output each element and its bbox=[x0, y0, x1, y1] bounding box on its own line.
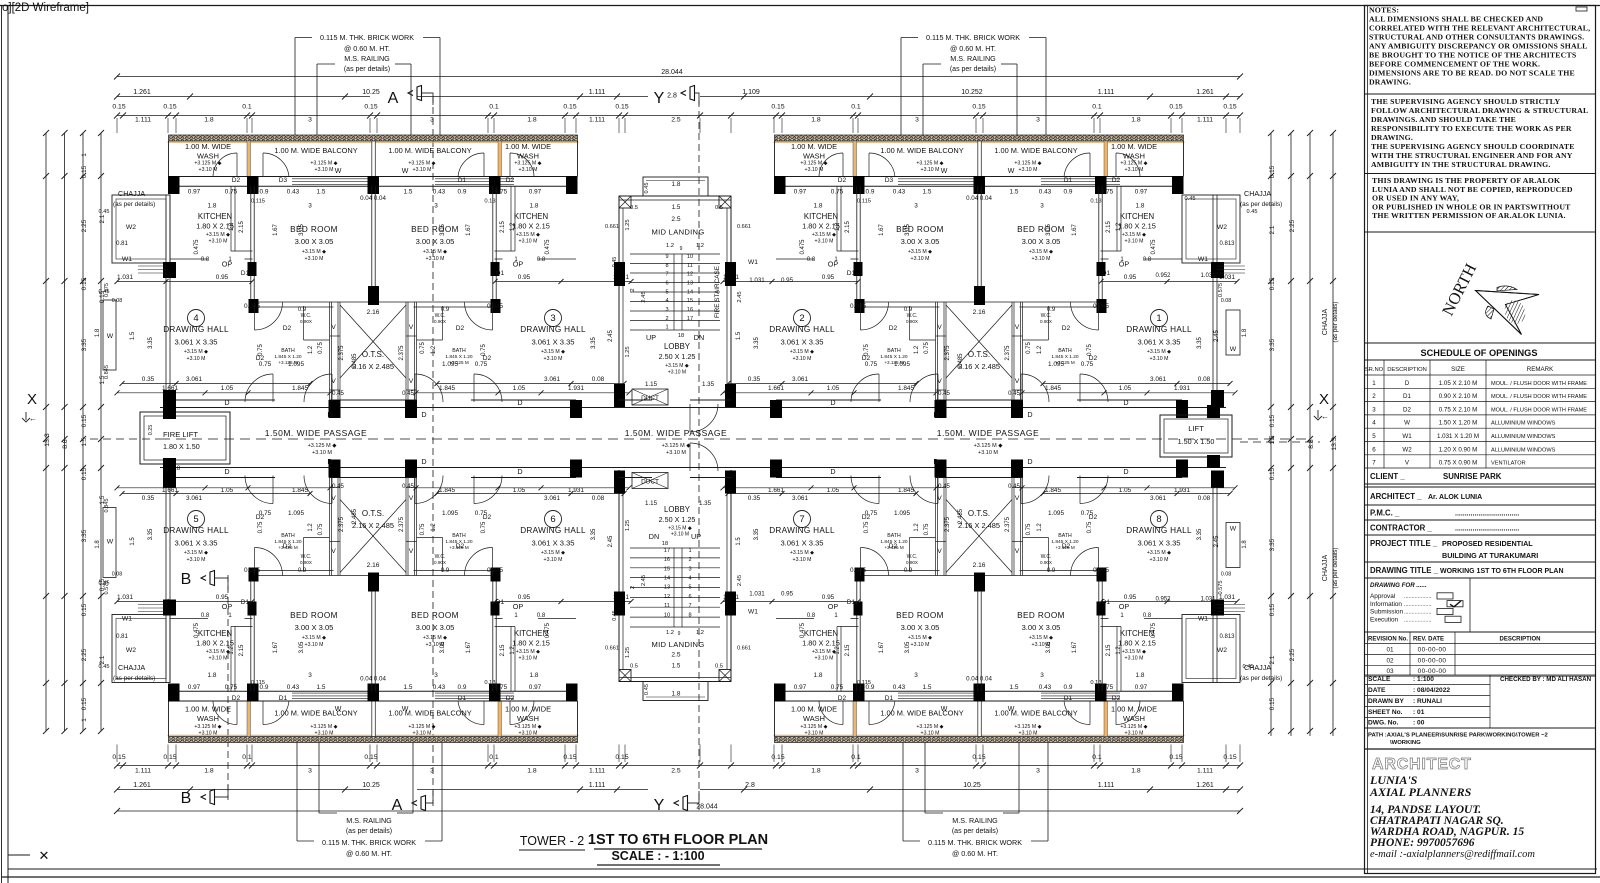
svg-text:1.111: 1.111 bbox=[1197, 117, 1213, 124]
svg-text:V: V bbox=[1015, 324, 1020, 331]
svg-text:Ar. ALOK LUNIA: Ar. ALOK LUNIA bbox=[1428, 494, 1482, 501]
svg-text:1.111: 1.111 bbox=[589, 768, 605, 775]
svg-text:0.43: 0.43 bbox=[287, 189, 300, 196]
svg-text:2.45: 2.45 bbox=[608, 535, 614, 547]
svg-text:D2: D2 bbox=[456, 325, 465, 332]
svg-text:1.00 M. WIDE: 1.00 M. WIDE bbox=[1111, 705, 1157, 714]
svg-text:W2: W2 bbox=[126, 647, 136, 654]
svg-text:0.97: 0.97 bbox=[794, 684, 807, 691]
stair core columns bottom bbox=[614, 592, 625, 616]
svg-text:1.35: 1.35 bbox=[702, 381, 715, 388]
svg-text:(as per details): (as per details) bbox=[346, 828, 392, 835]
passage wall top wing bbox=[776, 399, 881, 401]
unit number 6 bbox=[545, 511, 562, 528]
svg-text:1.2: 1.2 bbox=[229, 646, 235, 655]
svg-text:3.35: 3.35 bbox=[1197, 337, 1203, 349]
svg-text:1.00 M. WIDE: 1.00 M. WIDE bbox=[505, 705, 551, 714]
svg-text:1.67: 1.67 bbox=[1072, 641, 1078, 653]
svg-text:←: ← bbox=[1321, 412, 1329, 421]
svg-text:✕: ✕ bbox=[39, 848, 50, 863]
svg-text:V: V bbox=[937, 548, 942, 555]
svg-text:+3.10 M: +3.10 M bbox=[315, 731, 334, 737]
svg-text:3.05: 3.05 bbox=[299, 224, 305, 236]
svg-text:1.15: 1.15 bbox=[645, 500, 658, 507]
left W window box top bbox=[103, 300, 116, 370]
svg-text:WASH: WASH bbox=[1123, 714, 1145, 723]
svg-text:1.50M. WIDE PASSAGE: 1.50M. WIDE PASSAGE bbox=[265, 428, 367, 438]
bedroom bottom wall bottom bbox=[859, 575, 1101, 577]
svg-text:ARCHITECT: ARCHITECT bbox=[1372, 756, 1472, 773]
svg-text:1.031 X 1.20 M: 1.031 X 1.20 M bbox=[1437, 433, 1479, 440]
svg-text:2: 2 bbox=[665, 316, 668, 322]
svg-text:V: V bbox=[409, 548, 414, 555]
svg-text:0.75: 0.75 bbox=[831, 684, 844, 691]
svg-text:D2: D2 bbox=[1062, 543, 1071, 550]
svg-text:0.9: 0.9 bbox=[904, 568, 913, 574]
svg-text:+3.15 M ◆: +3.15 M ◆ bbox=[184, 349, 208, 355]
svg-text:1.80 X 2.15: 1.80 X 2.15 bbox=[1118, 222, 1156, 231]
svg-text:+3.10 M: +3.10 M bbox=[805, 167, 824, 173]
svg-text:D: D bbox=[327, 457, 332, 466]
svg-text:0.75: 0.75 bbox=[259, 361, 272, 368]
bedroom door arcs D1 bottom bbox=[861, 548, 889, 576]
svg-text:+3.15 M ◆: +3.15 M ◆ bbox=[812, 649, 836, 655]
svg-text:0.35: 0.35 bbox=[748, 495, 761, 502]
svg-text:0.8: 0.8 bbox=[537, 613, 546, 619]
svg-text:1.931: 1.931 bbox=[568, 385, 584, 392]
kitchen bottom wall top bbox=[170, 258, 208, 260]
svg-text:1.2: 1.2 bbox=[510, 646, 516, 655]
svg-text:0.08: 0.08 bbox=[112, 298, 123, 304]
svg-text:0.35: 0.35 bbox=[142, 376, 155, 383]
svg-text:+3.15 M ◆: +3.15 M ◆ bbox=[1147, 550, 1171, 556]
svg-text:1.50 X 1.20 M: 1.50 X 1.20 M bbox=[1439, 420, 1478, 427]
svg-text:2.45: 2.45 bbox=[641, 575, 647, 586]
svg-text:0.9: 0.9 bbox=[1064, 189, 1073, 196]
svg-text:2.45: 2.45 bbox=[641, 291, 647, 302]
svg-text:A: A bbox=[392, 797, 403, 814]
svg-text:REMARK: REMARK bbox=[1527, 366, 1554, 373]
svg-text:V: V bbox=[409, 378, 414, 385]
client row bbox=[1365, 483, 1596, 485]
svg-text:0.9: 0.9 bbox=[458, 684, 467, 691]
svg-text:1.80 X 2.15: 1.80 X 2.15 bbox=[512, 222, 550, 231]
svg-text:BATH: BATH bbox=[887, 348, 901, 354]
svg-text:0.08: 0.08 bbox=[112, 572, 123, 578]
svg-text:0.97: 0.97 bbox=[188, 684, 201, 691]
svg-text:D: D bbox=[517, 467, 522, 476]
stair treads top bbox=[630, 253, 720, 255]
svg-text:0.08: 0.08 bbox=[1221, 298, 1232, 304]
columns exterior wall bottom bbox=[168, 684, 180, 702]
passage wall lower bbox=[160, 467, 1226, 469]
svg-text:WASH: WASH bbox=[803, 714, 825, 723]
svg-text:0.9: 0.9 bbox=[1047, 307, 1056, 313]
kitchen bottom wall bottom bbox=[170, 618, 208, 620]
svg-text:3.35: 3.35 bbox=[591, 528, 597, 540]
svg-text:18: 18 bbox=[678, 333, 684, 339]
svg-text:0.97: 0.97 bbox=[1135, 189, 1148, 196]
architect row bbox=[1365, 504, 1596, 506]
svg-text:0.115 M. THK. BRICK WORK: 0.115 M. THK. BRICK WORK bbox=[928, 838, 1022, 847]
svg-text:W1: W1 bbox=[748, 259, 758, 266]
svg-text:REVISION No.: REVISION No. bbox=[1368, 637, 1408, 643]
svg-text:0.45: 0.45 bbox=[1008, 484, 1020, 490]
svg-text:0.9: 0.9 bbox=[298, 568, 307, 574]
svg-text:0.45: 0.45 bbox=[332, 391, 344, 397]
svg-text:Y: Y bbox=[654, 90, 665, 107]
svg-text:O.T.S.: O.T.S. bbox=[968, 509, 990, 518]
stair core outer walls bottom bbox=[618, 470, 620, 682]
stair core bottom wall top bbox=[619, 399, 652, 401]
left chajja box bottom bbox=[112, 615, 170, 683]
svg-text:1.2: 1.2 bbox=[835, 646, 841, 655]
svg-text:10: 10 bbox=[664, 612, 670, 618]
svg-text:DRAWINGS. AND SHOULD TAKE THE: DRAWINGS. AND SHOULD TAKE THE bbox=[1371, 115, 1516, 124]
stair center rails top bbox=[673, 254, 675, 330]
svg-text:5: 5 bbox=[193, 514, 198, 525]
svg-text:0.75: 0.75 bbox=[475, 510, 488, 517]
svg-text:V: V bbox=[331, 495, 336, 502]
svg-text:2.375: 2.375 bbox=[399, 345, 405, 361]
svg-text:STRUCTURAL AND OTHER CONSULTAN: STRUCTURAL AND OTHER CONSULTANTS DRAWING… bbox=[1369, 33, 1584, 42]
svg-text:1.80 X 2.15: 1.80 X 2.15 bbox=[1118, 639, 1156, 648]
right wall columns bottom bbox=[1211, 600, 1224, 616]
svg-text:+3.10 M: +3.10 M bbox=[815, 656, 834, 662]
svg-text:2.50 X 1.25: 2.50 X 1.25 bbox=[659, 352, 696, 361]
svg-text:0.95: 0.95 bbox=[781, 591, 794, 598]
svg-text:PROJECT TITLE _: PROJECT TITLE _ bbox=[1370, 539, 1438, 548]
svg-text:WASH: WASH bbox=[803, 152, 825, 161]
svg-text:0.945: 0.945 bbox=[487, 567, 503, 574]
unit number 8 bbox=[1151, 511, 1168, 528]
section line B dashed bbox=[227, 575, 229, 800]
svg-text:0.15: 0.15 bbox=[563, 754, 576, 761]
svg-text:2.15: 2.15 bbox=[845, 644, 851, 656]
svg-text:3: 3 bbox=[434, 672, 438, 679]
svg-text:D: D bbox=[1027, 410, 1032, 419]
columns exterior wall top bbox=[774, 176, 786, 194]
svg-text:0.475: 0.475 bbox=[194, 622, 200, 638]
svg-text:0.115: 0.115 bbox=[857, 199, 871, 205]
balcony outline bottom bbox=[774, 701, 776, 737]
svg-text:3.00 X 3.05: 3.00 X 3.05 bbox=[1022, 237, 1061, 246]
svg-text:0.08: 0.08 bbox=[1198, 376, 1211, 383]
svg-text:0.1: 0.1 bbox=[851, 754, 861, 761]
svg-text:BED ROOM: BED ROOM bbox=[896, 611, 944, 620]
svg-text:1.80 X 2.15: 1.80 X 2.15 bbox=[802, 639, 840, 648]
svg-text:CHAJJA: CHAJJA bbox=[118, 663, 145, 672]
svg-text:0.95: 0.95 bbox=[1124, 594, 1137, 601]
svg-text:3.061 X 3.35: 3.061 X 3.35 bbox=[1137, 539, 1180, 548]
svg-text:0.75: 0.75 bbox=[258, 344, 264, 356]
svg-text:0.43: 0.43 bbox=[1039, 684, 1052, 691]
svg-text:DESCRIPTION: DESCRIPTION bbox=[1499, 637, 1540, 643]
svg-text:1.031: 1.031 bbox=[117, 594, 133, 601]
svg-text:3.061: 3.061 bbox=[544, 376, 560, 383]
stair core columns top bbox=[614, 262, 625, 286]
hall door arcs at passage bottom bbox=[304, 476, 332, 504]
hall door arcs at passage top bbox=[304, 374, 332, 402]
svg-text:W: W bbox=[402, 168, 409, 175]
bottom dimension row 1 bbox=[117, 765, 1240, 767]
svg-text:DRAWN BY: DRAWN BY bbox=[1368, 698, 1405, 705]
duct box bottom bbox=[632, 473, 668, 489]
svg-text:1.50M. WIDE PASSAGE: 1.50M. WIDE PASSAGE bbox=[937, 428, 1039, 438]
svg-text:3.35: 3.35 bbox=[1197, 528, 1203, 540]
svg-text:0.95: 0.95 bbox=[822, 274, 835, 281]
svg-text:00-00-00: 00-00-00 bbox=[1418, 657, 1447, 664]
svg-text:X: X bbox=[1319, 391, 1329, 408]
svg-text:0.9: 0.9 bbox=[260, 189, 269, 196]
stair landing protrusion top bbox=[643, 177, 708, 196]
svg-text:1.5: 1.5 bbox=[1010, 684, 1019, 691]
svg-text:3: 3 bbox=[914, 203, 918, 210]
svg-text:0.945: 0.945 bbox=[244, 567, 260, 574]
svg-text:0.90X: 0.90X bbox=[1040, 319, 1052, 324]
svg-text:1.2: 1.2 bbox=[666, 243, 674, 249]
svg-text:0.9: 0.9 bbox=[458, 189, 467, 196]
window sills exterior wall bottom bbox=[898, 698, 976, 700]
svg-text:W: W bbox=[1404, 420, 1410, 427]
unit number 1 bbox=[1151, 310, 1168, 327]
OTS cross bottom bbox=[340, 500, 406, 573]
svg-text:3.35: 3.35 bbox=[754, 528, 760, 540]
svg-text:0.75: 0.75 bbox=[495, 684, 508, 691]
svg-text:W: W bbox=[1230, 346, 1237, 353]
right W window box top bbox=[1226, 310, 1240, 355]
svg-text:+3.10 M: +3.10 M bbox=[1125, 167, 1144, 173]
svg-text:0.5: 0.5 bbox=[630, 664, 638, 670]
svg-text:@ 0.60 M. HT.: @ 0.60 M. HT. bbox=[344, 44, 390, 53]
columns passage wall bottom bbox=[164, 460, 176, 478]
svg-text:0.75: 0.75 bbox=[475, 361, 488, 368]
svg-text:1.67: 1.67 bbox=[879, 224, 885, 236]
svg-text:2.25: 2.25 bbox=[81, 648, 88, 661]
svg-text:@ 0.60 M. HT.: @ 0.60 M. HT. bbox=[346, 849, 392, 858]
right chajja box bottom bbox=[1182, 615, 1240, 683]
svg-text:1: 1 bbox=[1156, 313, 1161, 324]
svg-text:0.75 X 2.10 M: 0.75 X 2.10 M bbox=[1439, 406, 1478, 413]
svg-text:1.5: 1.5 bbox=[404, 189, 413, 196]
svg-text:..............................: ................................. bbox=[1455, 525, 1519, 532]
svg-text:MID LANDING: MID LANDING bbox=[651, 228, 704, 237]
svg-text:1.67: 1.67 bbox=[879, 641, 885, 653]
sheet bottom border bbox=[8, 868, 1597, 870]
svg-text:0.952: 0.952 bbox=[1155, 273, 1171, 279]
columns exterior wall bottom bbox=[774, 684, 786, 702]
svg-text:4: 4 bbox=[1372, 420, 1376, 427]
svg-text:0.15: 0.15 bbox=[81, 414, 88, 427]
svg-text:0.845: 0.845 bbox=[104, 499, 110, 513]
brick work note bottom bbox=[903, 840, 920, 842]
svg-text:V: V bbox=[1015, 495, 1020, 502]
svg-text:1.031: 1.031 bbox=[117, 274, 133, 281]
svg-text:0.15: 0.15 bbox=[615, 104, 628, 111]
svg-text:1: 1 bbox=[1372, 380, 1376, 387]
svg-text:0.08: 0.08 bbox=[592, 376, 605, 383]
svg-text:+3.10 M: +3.10 M bbox=[544, 356, 563, 362]
svg-text:0.45: 0.45 bbox=[1008, 391, 1020, 397]
svg-text:0.115 M. THK. BRICK WORK: 0.115 M. THK. BRICK WORK bbox=[926, 33, 1020, 42]
svg-text:2.375: 2.375 bbox=[399, 516, 405, 532]
svg-text:1.8: 1.8 bbox=[1242, 540, 1248, 549]
svg-text:3.061 X 3.35: 3.061 X 3.35 bbox=[531, 338, 574, 347]
svg-text:3.05: 3.05 bbox=[440, 641, 446, 653]
svg-text:..................: .................. bbox=[1404, 602, 1432, 608]
svg-text:D2: D2 bbox=[232, 177, 241, 184]
svg-text:0.75: 0.75 bbox=[865, 361, 878, 368]
railing note leader bbox=[317, 63, 335, 65]
svg-text:+3.15 M ◆: +3.15 M ◆ bbox=[1122, 649, 1146, 655]
balcony partition walls bottom bbox=[247, 701, 251, 737]
passage wall upper bbox=[160, 407, 1226, 409]
svg-text:CONTRACTOR _: CONTRACTOR _ bbox=[1370, 523, 1432, 532]
svg-text:0.75: 0.75 bbox=[924, 523, 930, 535]
svg-text:0.115: 0.115 bbox=[857, 680, 871, 686]
svg-text:W1: W1 bbox=[1402, 433, 1412, 440]
svg-text:0.945: 0.945 bbox=[244, 303, 260, 310]
svg-text:2.5: 2.5 bbox=[671, 216, 680, 223]
svg-text:10.252: 10.252 bbox=[961, 89, 983, 96]
svg-text:1.00 M. WIDE: 1.00 M. WIDE bbox=[791, 705, 837, 714]
svg-text:V: V bbox=[937, 378, 942, 385]
interior partition kitchen-bedroom top bbox=[250, 186, 252, 300]
svg-text:0.45: 0.45 bbox=[402, 484, 414, 490]
core door arc bottom bbox=[690, 443, 718, 471]
balcony door arcs bottom bbox=[819, 701, 843, 725]
svg-text:3: 3 bbox=[434, 203, 438, 210]
left W window box bottom bbox=[103, 508, 116, 578]
svg-text:1.5: 1.5 bbox=[130, 331, 136, 340]
svg-text:0.15: 0.15 bbox=[364, 104, 377, 111]
svg-text:0.13: 0.13 bbox=[1090, 199, 1101, 205]
svg-text:0.75: 0.75 bbox=[1026, 342, 1032, 354]
svg-text:0.1: 0.1 bbox=[242, 104, 252, 111]
svg-text:0.75 X 0.90 M: 0.75 X 0.90 M bbox=[1439, 460, 1478, 467]
svg-text:0.75: 0.75 bbox=[259, 510, 272, 517]
fire lift columns bbox=[163, 405, 176, 419]
stair center rails bottom bbox=[673, 548, 675, 627]
svg-text:0.945: 0.945 bbox=[1093, 567, 1109, 574]
svg-text:7: 7 bbox=[799, 514, 804, 525]
svg-text:4: 4 bbox=[665, 298, 668, 304]
svg-text:0.75: 0.75 bbox=[1081, 510, 1094, 517]
svg-text:D1: D1 bbox=[458, 695, 467, 702]
svg-text:BATH: BATH bbox=[452, 533, 466, 539]
svg-text:+3.10 M: +3.10 M bbox=[1032, 256, 1051, 262]
svg-text:3.35: 3.35 bbox=[591, 337, 597, 349]
svg-text:0.75: 0.75 bbox=[258, 521, 264, 533]
wing mid dim lines bbox=[723, 281, 858, 283]
svg-text:1: 1 bbox=[665, 325, 668, 331]
svg-text:2.50 X 1.25: 2.50 X 1.25 bbox=[659, 515, 696, 524]
svg-text:1.8: 1.8 bbox=[208, 672, 217, 679]
svg-text:D: D bbox=[517, 398, 522, 407]
svg-text:+3.125 M ◆: +3.125 M ◆ bbox=[800, 161, 827, 167]
svg-text:3.35: 3.35 bbox=[1269, 538, 1276, 551]
svg-text:0.115 M. THK. BRICK WORK: 0.115 M. THK. BRICK WORK bbox=[320, 33, 414, 42]
svg-text:1.2: 1.2 bbox=[666, 630, 674, 636]
svg-text:+3.15 M ◆: +3.15 M ◆ bbox=[790, 550, 814, 556]
svg-text:AXIAL PLANNERS: AXIAL PLANNERS bbox=[1369, 785, 1472, 799]
svg-text:0.475: 0.475 bbox=[1151, 239, 1157, 255]
svg-text:THE WRITTEN PERMISSION OF AR.A: THE WRITTEN PERMISSION OF AR.ALOK LUNIA. bbox=[1372, 211, 1566, 220]
svg-text:2.15: 2.15 bbox=[500, 644, 506, 656]
svg-text:+3.125 M ◆: +3.125 M ◆ bbox=[1014, 161, 1041, 167]
svg-text:0.9: 0.9 bbox=[441, 307, 450, 313]
svg-text:3.061 X 3.35: 3.061 X 3.35 bbox=[174, 338, 217, 347]
svg-text:0.8: 0.8 bbox=[1143, 613, 1152, 619]
svg-text:MOUL. / FLUSH DOOR WITH FRAME: MOUL. / FLUSH DOOR WITH FRAME bbox=[1491, 394, 1587, 400]
svg-text:DRAWING FOR ......: DRAWING FOR ...... bbox=[1370, 582, 1427, 589]
svg-text:0.1: 0.1 bbox=[1092, 754, 1102, 761]
svg-text:1.67: 1.67 bbox=[466, 224, 472, 236]
svg-text:..................: .................. bbox=[1404, 594, 1432, 600]
svg-text:2.16 X 2.485: 2.16 X 2.485 bbox=[958, 362, 1000, 371]
svg-text:+3.10 M: +3.10 M bbox=[305, 256, 324, 262]
svg-text:0.75: 0.75 bbox=[420, 523, 426, 535]
stair core outer walls top bbox=[618, 196, 620, 408]
svg-text:+3.125 M ◆: +3.125 M ◆ bbox=[1120, 724, 1147, 730]
svg-text:00-00-00: 00-00-00 bbox=[1418, 647, 1447, 654]
svg-text:+3.10 M: +3.10 M bbox=[1150, 356, 1169, 362]
svg-text:1.5: 1.5 bbox=[1010, 189, 1019, 196]
svg-text:0.575: 0.575 bbox=[1218, 581, 1224, 595]
bottom overall dimension line 28.044 bbox=[117, 810, 1240, 812]
svg-text:0.575: 0.575 bbox=[104, 581, 110, 595]
svg-text:0.5: 0.5 bbox=[715, 664, 723, 670]
svg-text:MOUL. / FLUSH DOOR WITH FRAME: MOUL. / FLUSH DOOR WITH FRAME bbox=[1491, 407, 1587, 413]
svg-text:3.061 X 3.35: 3.061 X 3.35 bbox=[174, 539, 217, 548]
svg-text:D2: D2 bbox=[283, 543, 292, 550]
svg-text:2.16: 2.16 bbox=[973, 562, 986, 569]
bath walls bottom bbox=[910, 537, 936, 539]
svg-text:1.5: 1.5 bbox=[1269, 435, 1276, 444]
svg-text:0.1: 0.1 bbox=[489, 104, 499, 111]
svg-text:BED ROOM: BED ROOM bbox=[290, 611, 338, 620]
svg-text:D: D bbox=[933, 410, 938, 419]
svg-text:0.75: 0.75 bbox=[1087, 344, 1093, 356]
svg-text:THE SUPERVISING AGENCY SHOULD: THE SUPERVISING AGENCY SHOULD STRICTLY bbox=[1371, 97, 1560, 106]
svg-text:8: 8 bbox=[665, 263, 668, 269]
svg-text:2.25: 2.25 bbox=[81, 219, 88, 232]
svg-text:D3: D3 bbox=[279, 177, 288, 184]
svg-text:(as per details): (as per details) bbox=[952, 828, 998, 835]
svg-text:8.8: 8.8 bbox=[62, 439, 69, 449]
svg-text:D2: D2 bbox=[1112, 695, 1121, 702]
svg-text:0.8: 0.8 bbox=[807, 257, 816, 263]
svg-text:0.15: 0.15 bbox=[81, 603, 88, 616]
svg-text:0.15: 0.15 bbox=[615, 754, 628, 761]
notes divider 2 bbox=[1365, 173, 1596, 175]
svg-text:DRAWING HALL: DRAWING HALL bbox=[769, 325, 835, 334]
svg-text:0.475: 0.475 bbox=[800, 239, 806, 255]
corner boxes with X top bbox=[619, 196, 631, 208]
svg-text:V: V bbox=[1015, 378, 1020, 385]
svg-text:0.45: 0.45 bbox=[99, 209, 110, 215]
bath walls top bbox=[304, 339, 330, 341]
svg-text:MID LANDING: MID LANDING bbox=[651, 640, 704, 649]
svg-text:6: 6 bbox=[1372, 446, 1376, 453]
left W1 sill bottom bbox=[138, 611, 166, 613]
svg-text:D: D bbox=[421, 457, 426, 466]
svg-text:0.15: 0.15 bbox=[81, 277, 88, 290]
svg-text:2.485: 2.485 bbox=[352, 508, 358, 524]
balcony hatch strip top wing bbox=[774, 141, 1185, 143]
svg-text:3.061 X 3.35: 3.061 X 3.35 bbox=[780, 539, 823, 548]
svg-text:1.00 M. WIDE: 1.00 M. WIDE bbox=[791, 142, 837, 151]
